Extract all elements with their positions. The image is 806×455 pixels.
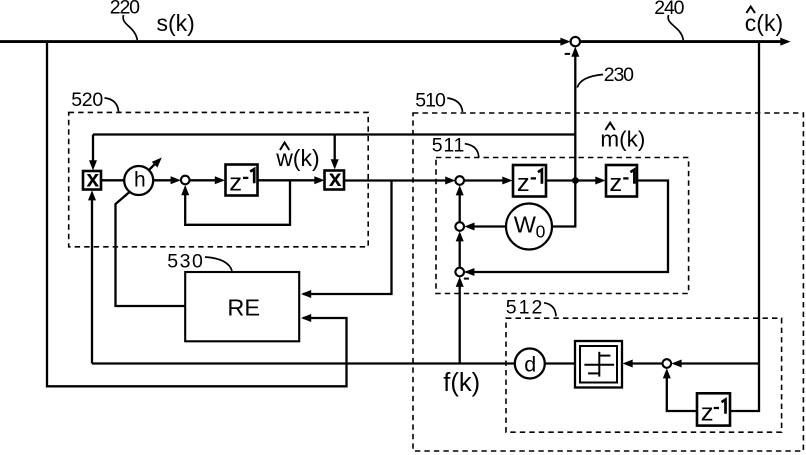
decision device d (515, 349, 545, 379)
node N3 (subtractor in 511) (455, 268, 464, 277)
label 530 (167, 251, 203, 273)
wire N1 to delay Z2 (464, 177, 513, 185)
wire N3 to N2 (456, 231, 464, 268)
wire f(k) up into X1 bottom (88, 190, 96, 363)
svg-text:RE: RE (227, 295, 260, 321)
svg-text:f(k): f(k) (443, 369, 480, 397)
svg-text:h: h (134, 169, 146, 192)
wire Z2 to delay Z3 (546, 177, 606, 185)
svg-text:512: 512 (506, 297, 543, 319)
leader for 511 (465, 144, 479, 158)
leader for 530 (205, 257, 232, 271)
quantizer slicer block (575, 341, 622, 388)
wire node N4 to quantizer (623, 360, 663, 368)
wire main input line s(k) (0, 38, 571, 46)
node N1 (adder in 511) (455, 176, 464, 185)
multiplier X2 (325, 165, 345, 191)
dashed box 511 (436, 158, 689, 294)
svg-text:x: x (329, 165, 342, 191)
label c^(k) output (745, 7, 783, 36)
summing node S1 (output subtractor) (571, 37, 580, 46)
wire Z1 to multiplier X2 (258, 176, 325, 184)
wire f(k) horizontal line (92, 362, 515, 364)
svg-text:c(k): c(k) (745, 10, 783, 36)
svg-text:z: z (517, 171, 530, 197)
label m^(k) (600, 123, 645, 152)
wire branch to RE upper input (301, 181, 392, 299)
label 230 (604, 64, 634, 86)
label 520 (71, 89, 103, 111)
wire N2 to N1 (456, 185, 464, 222)
svg-text:520: 520 (71, 89, 103, 111)
svg-text:240: 240 (654, 0, 684, 19)
delay Z4 (z^-1 in 512) (697, 393, 730, 426)
minus sign at subtractor S1 (565, 53, 570, 55)
svg-text:d: d (524, 352, 536, 376)
svg-text:x: x (86, 165, 99, 191)
label 220 (110, 0, 140, 19)
wire f(k) up into N3 (456, 277, 464, 364)
wire h to node A (153, 176, 181, 184)
leader for 220 (123, 15, 137, 40)
svg-text:530: 530 (167, 251, 203, 273)
wire right drop from c^(k) to 512 block (731, 42, 760, 411)
svg-text:m(k): m(k) (600, 127, 645, 152)
svg-text:z: z (609, 171, 622, 197)
wire W0 output to node N2 (464, 223, 506, 231)
wire quantizer to d (545, 362, 575, 364)
svg-text:s(k): s(k) (157, 10, 195, 36)
svg-text:W: W (514, 212, 537, 238)
wire Z3 feedback to node N3 (464, 181, 668, 277)
delay Z2 (first z^-1 in 511) (513, 165, 546, 197)
wire Z4 output up into N4 (663, 368, 697, 411)
wire top distribution line inside 520 (93, 133, 575, 135)
leader for 510 (447, 98, 462, 112)
gain W0 (506, 204, 552, 250)
wire main output line (580, 38, 790, 46)
svg-text:230: 230 (604, 64, 634, 86)
wire h to RE control line (116, 192, 186, 306)
label 512 (506, 297, 543, 319)
svg-text:z: z (229, 170, 242, 196)
dashed box 512 (506, 318, 782, 432)
wire c^(k) into N4 (671, 360, 759, 368)
label 240 (654, 0, 684, 19)
label s(k) (157, 10, 195, 36)
block RE U530 (185, 272, 299, 341)
variable gain h (124, 166, 153, 195)
label 510 (415, 89, 446, 111)
dashed box 510 (413, 113, 803, 451)
leader for 512 (544, 303, 556, 317)
wire left drop from s(k) to bottom rail (47, 42, 347, 387)
wire X1 to gain h (101, 179, 125, 181)
label f(k) (443, 369, 480, 397)
svg-text:220: 220 (110, 0, 140, 19)
label w^(k) (275, 143, 319, 171)
wire W0 input from m^(k) node (552, 225, 576, 227)
dashed box 520 (69, 112, 369, 246)
arrow into RE lower input (301, 314, 311, 322)
multiplier X1 (83, 165, 101, 191)
svg-text:0: 0 (536, 221, 546, 241)
svg-text:510: 510 (415, 89, 446, 111)
svg-text:511: 511 (432, 134, 465, 156)
leader for 520 (105, 98, 119, 112)
node A (adder in 520) (181, 176, 190, 185)
node N4 (adder in 512) (663, 359, 672, 368)
wire drop into multiplier X1 top (89, 135, 97, 171)
svg-text:z: z (701, 400, 714, 426)
leader for 230 (577, 75, 603, 88)
wire node A to delay Z1 (190, 176, 226, 184)
node N2 (adder in 511) (455, 222, 464, 231)
wire feedback loop in 520 (181, 180, 290, 225)
wire subtractor feedback vertical (net 230) (571, 47, 579, 227)
label 511 (432, 134, 465, 156)
leader for 240 (668, 15, 683, 40)
wire X2 output to node N1 (345, 177, 456, 185)
minus sign at node N3 (464, 278, 469, 280)
junction dot m^(k) node (572, 177, 579, 184)
adjustment arrow on h (148, 155, 164, 171)
delay Z3 (second z^-1 in 511) (606, 165, 637, 197)
wire drop into multiplier X2 top (331, 135, 339, 170)
delay Z1 (z^-1 in 520) (226, 165, 258, 197)
